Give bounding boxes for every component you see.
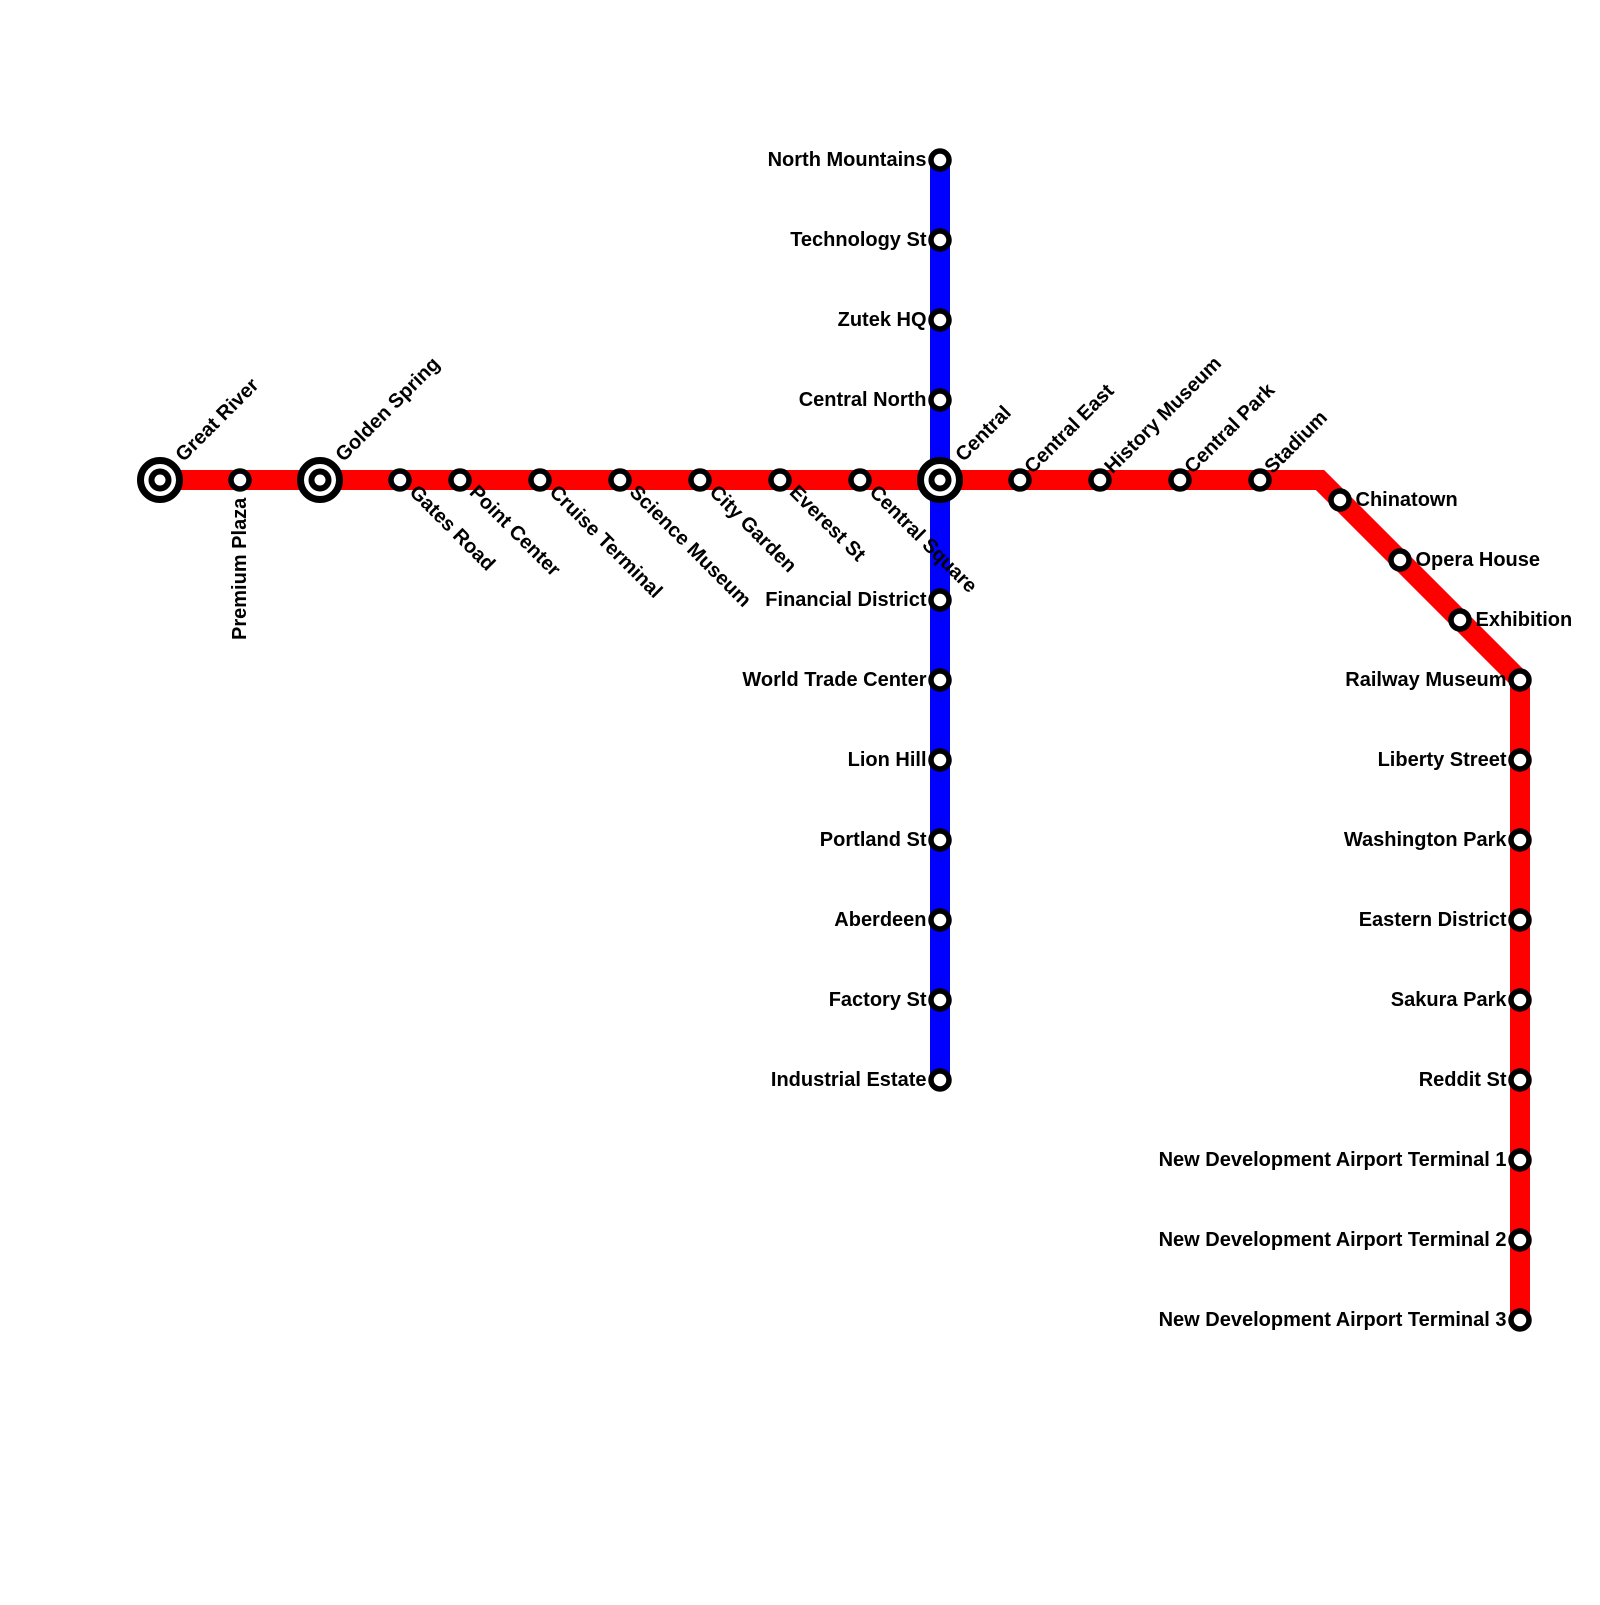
svg-text:Lion Hill: Lion Hill	[848, 749, 927, 771]
svg-text:Liberty Street: Liberty Street	[1378, 749, 1507, 771]
svg-text:Opera House: Opera House	[1416, 549, 1541, 571]
station Premium Plaza	[231, 471, 249, 489]
station Factory St	[931, 991, 949, 1009]
station New Development Airport Terminal 1	[1511, 1151, 1529, 1169]
svg-text:Railway Museum: Railway Museum	[1345, 669, 1506, 691]
station Eastern District	[1511, 911, 1529, 929]
svg-text:Technology St: Technology St	[790, 229, 927, 251]
station Gates Road	[391, 471, 409, 489]
station Exhibition	[1451, 611, 1469, 629]
svg-text:Industrial Estate: Industrial Estate	[771, 1069, 927, 1091]
station Point Center	[451, 471, 469, 489]
station New Development Airport Terminal 3	[1511, 1311, 1529, 1329]
station Zutek HQ	[931, 311, 949, 329]
station Portland St	[931, 831, 949, 849]
station Science Museum	[611, 471, 629, 489]
blue line	[930, 160, 950, 1080]
red line	[160, 480, 1520, 1320]
station Great River	[141, 461, 180, 500]
svg-text:Financial District: Financial District	[765, 589, 927, 611]
svg-text:New Development Airport Termin: New Development Airport Terminal 1	[1159, 1149, 1507, 1171]
svg-text:Zutek HQ: Zutek HQ	[838, 309, 927, 331]
svg-text:Chinatown: Chinatown	[1356, 489, 1458, 511]
station Central Park	[1171, 471, 1189, 489]
station City Garden	[691, 471, 709, 489]
svg-text:Washington Park: Washington Park	[1344, 829, 1507, 851]
station Chinatown	[1331, 491, 1349, 509]
station Industrial Estate	[931, 1071, 949, 1089]
station Central East	[1011, 471, 1029, 489]
svg-text:Eastern District: Eastern District	[1359, 909, 1507, 931]
station Lion Hill	[931, 751, 949, 769]
station North Mountains	[931, 151, 949, 169]
station History Museum	[1091, 471, 1109, 489]
station Washington Park	[1511, 831, 1529, 849]
station Everest St	[771, 471, 789, 489]
station World Trade Center	[931, 671, 949, 689]
svg-text:Central North: Central North	[799, 389, 927, 411]
station Financial District	[931, 591, 949, 609]
station Central Square	[851, 471, 869, 489]
svg-text:North Mountains: North Mountains	[768, 149, 927, 171]
station Sakura Park	[1511, 991, 1529, 1009]
svg-text:Premium Plaza: Premium Plaza	[229, 497, 251, 640]
station Opera House	[1391, 551, 1409, 569]
svg-text:Exhibition: Exhibition	[1476, 609, 1573, 631]
svg-text:Sakura Park: Sakura Park	[1391, 989, 1508, 1011]
station Reddit St	[1511, 1071, 1529, 1089]
svg-text:Portland St: Portland St	[820, 829, 927, 851]
station Stadium	[1251, 471, 1269, 489]
station Liberty Street	[1511, 751, 1529, 769]
station Cruise Terminal	[531, 471, 549, 489]
station New Development Airport Terminal 2	[1511, 1231, 1529, 1249]
svg-text:Reddit St: Reddit St	[1419, 1069, 1507, 1091]
svg-text:Factory St: Factory St	[829, 989, 927, 1011]
station Central	[921, 461, 960, 500]
station Aberdeen	[931, 911, 949, 929]
svg-text:Aberdeen: Aberdeen	[834, 909, 926, 931]
station Railway Museum	[1511, 671, 1529, 689]
station Golden Spring	[301, 461, 340, 500]
svg-text:New Development Airport Termin: New Development Airport Terminal 3	[1159, 1309, 1507, 1331]
station Technology St	[931, 231, 949, 249]
station Central North	[931, 391, 949, 409]
svg-text:New Development Airport Termin: New Development Airport Terminal 2	[1159, 1229, 1507, 1251]
svg-text:World Trade Center: World Trade Center	[742, 669, 926, 691]
